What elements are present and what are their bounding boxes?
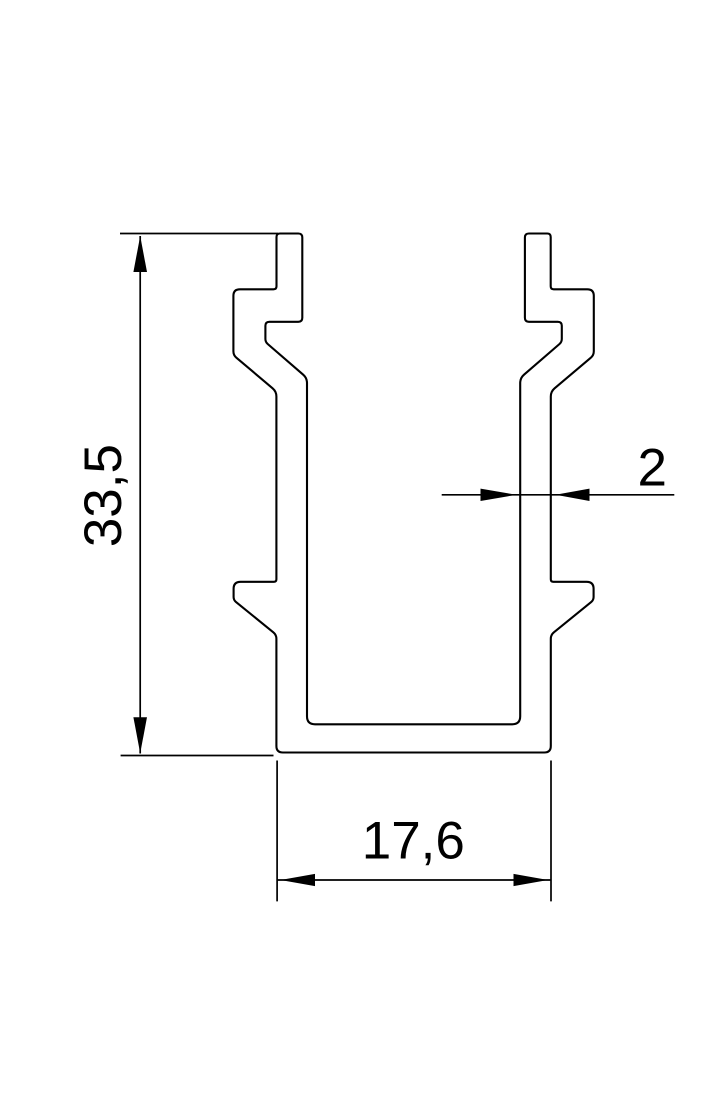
svg-text:2: 2 xyxy=(638,439,667,498)
svg-text:17,6: 17,6 xyxy=(362,812,465,871)
svg-text:33,5: 33,5 xyxy=(74,444,133,547)
